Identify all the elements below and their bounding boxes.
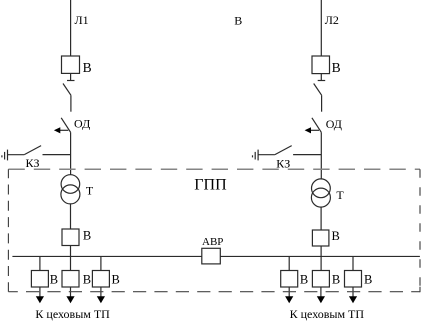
svg-text:Л1: Л1 <box>75 13 89 27</box>
svg-text:ОД: ОД <box>74 116 90 130</box>
svg-text:К цеховым ТП: К цеховым ТП <box>35 307 110 321</box>
svg-text:Т: Т <box>336 188 344 202</box>
svg-text:КЗ: КЗ <box>276 156 290 170</box>
svg-text:ОД: ОД <box>326 117 342 131</box>
svg-text:В: В <box>332 229 340 243</box>
svg-text:ГПП: ГПП <box>194 176 227 193</box>
svg-text:Л2: Л2 <box>325 13 339 27</box>
svg-text:В: В <box>50 272 58 286</box>
svg-text:В: В <box>83 229 91 243</box>
svg-text:В: В <box>234 14 242 28</box>
svg-text:В: В <box>83 272 91 286</box>
svg-text:В: В <box>112 272 120 286</box>
svg-text:В: В <box>83 60 92 75</box>
svg-text:К цеховым ТП: К цеховым ТП <box>290 307 365 321</box>
svg-text:В: В <box>332 60 341 75</box>
svg-text:В: В <box>332 272 340 286</box>
svg-text:В: В <box>300 272 308 286</box>
svg-text:КЗ: КЗ <box>26 156 40 170</box>
svg-text:АВР: АВР <box>202 236 223 248</box>
svg-text:Т: Т <box>86 183 94 197</box>
svg-text:В: В <box>364 272 372 286</box>
